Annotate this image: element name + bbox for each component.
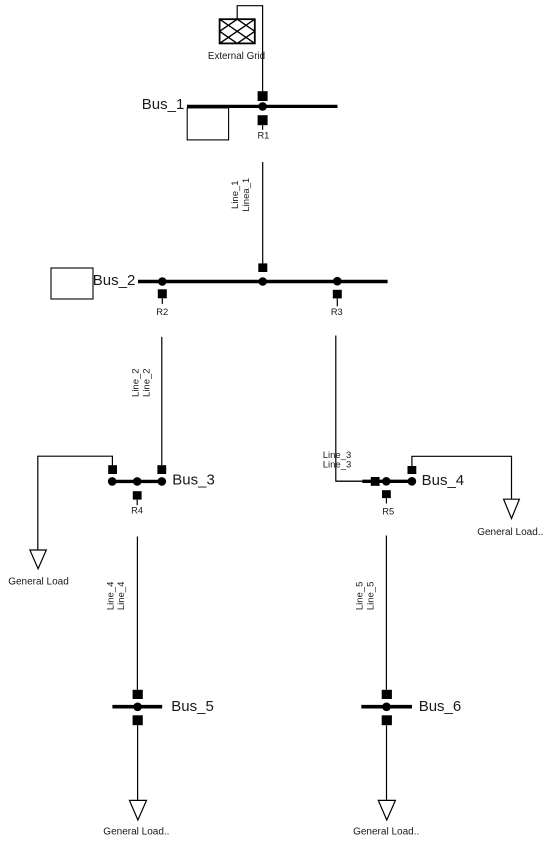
svg-text:Bus_6: Bus_6 xyxy=(419,698,462,715)
svg-text:Bus_5: Bus_5 xyxy=(171,698,214,715)
svg-text:Line_1: Line_1 xyxy=(230,180,241,209)
svg-text:Bus_2: Bus_2 xyxy=(93,272,136,289)
svg-text:Bus_4: Bus_4 xyxy=(422,472,465,489)
svg-text:R1: R1 xyxy=(257,130,269,140)
svg-text:Linea_1: Linea_1 xyxy=(241,178,252,212)
svg-text:R5: R5 xyxy=(382,506,394,516)
svg-text:General Load..: General Load.. xyxy=(103,827,169,838)
svg-text:General Load..: General Load.. xyxy=(353,827,419,838)
svg-text:Bus_3: Bus_3 xyxy=(172,472,215,489)
svg-text:General Load: General Load xyxy=(8,576,69,587)
svg-text:R3: R3 xyxy=(331,307,343,317)
svg-text:General Load..: General Load.. xyxy=(477,527,543,538)
svg-text:Bus_1: Bus_1 xyxy=(142,96,185,113)
svg-text:Line_4: Line_4 xyxy=(116,582,127,611)
svg-text:Line_3: Line_3 xyxy=(323,460,352,471)
svg-text:Line_5: Line_5 xyxy=(354,582,365,611)
svg-text:R2: R2 xyxy=(156,307,168,317)
svg-text:External Grid: External Grid xyxy=(208,51,265,62)
svg-text:R4: R4 xyxy=(131,506,143,516)
svg-text:Line_4: Line_4 xyxy=(105,582,116,611)
svg-text:Line_5: Line_5 xyxy=(365,582,376,611)
svg-text:Line_2: Line_2 xyxy=(142,368,153,397)
svg-text:Line_2: Line_2 xyxy=(131,368,142,397)
